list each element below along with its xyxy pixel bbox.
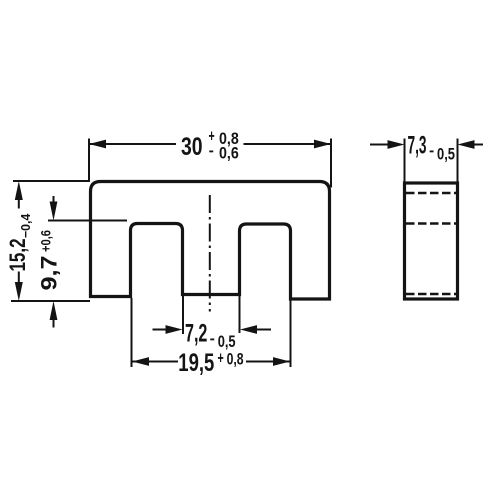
dim 30 arrowhead left	[89, 140, 106, 149]
dim 7.2 arrow right	[252, 329, 271, 331]
dim 30 extension line right	[330, 139, 332, 188]
svg-text:−: −	[209, 142, 214, 161]
dim 19.5 line left segment	[132, 361, 178, 363]
svg-text:7,2: 7,2	[185, 320, 207, 348]
svg-text:30: 30	[181, 133, 203, 161]
svg-text:15,2: 15,2	[5, 239, 30, 272]
svg-text:+0,6: +0,6	[38, 230, 54, 252]
svg-text:0,8: 0,8	[227, 350, 244, 369]
dim 19.5 arrowhead left	[132, 357, 149, 366]
svg-text:19,5: 19,5	[178, 349, 214, 377]
svg-text:−: −	[210, 330, 215, 349]
dim 7.2 extension line left	[182, 296, 184, 334]
dim 30 arrowhead right	[314, 140, 331, 149]
side view outline	[405, 183, 458, 299]
centerline (dash-dot)	[209, 195, 211, 312]
E-core front view outline	[91, 182, 330, 300]
dim 9.7 arrow top (pointing down)	[50, 202, 58, 221]
dim 7.3 extension line right	[457, 139, 459, 184]
dim 7.2 extension line right	[239, 296, 241, 333]
dim 19.5 extension line right	[290, 300, 292, 367]
dim 7.3 arrow right	[468, 144, 483, 146]
dim 9.7 reference line at slot top level	[48, 220, 127, 222]
dim 30 line right segment	[244, 143, 332, 145]
svg-text:9,7: 9,7	[37, 256, 62, 291]
side view hidden line bottom	[406, 293, 456, 296]
svg-text:0,5: 0,5	[437, 144, 455, 163]
svg-text:−0,4: −0,4	[18, 213, 33, 238]
dim 15.2 arrow bottom	[15, 282, 23, 301]
dim 9.7 arrow bottom (pointing up)	[50, 301, 58, 320]
dim 7.2 arrow left	[153, 329, 171, 331]
svg-text:7,3: 7,3	[408, 132, 427, 160]
dim 19.5 extension line left	[131, 298, 133, 367]
dim 19.5 line right segment	[246, 361, 290, 363]
svg-text:−: −	[429, 142, 434, 161]
dim 7.3 arrow left	[370, 144, 394, 146]
svg-text:+: +	[218, 349, 224, 368]
dim 7.3 extension line left	[404, 139, 406, 184]
dim 15.2 arrow top	[15, 181, 23, 200]
dim 30 extension line left	[88, 139, 90, 181]
svg-text:0,6: 0,6	[219, 143, 239, 162]
dim 30 line left segment	[89, 143, 176, 145]
dim 15.2 extension line bottom	[11, 300, 90, 302]
side view hidden line middle	[406, 222, 456, 225]
side view hidden line top	[406, 192, 456, 195]
dim 19.5 arrowhead right	[273, 357, 290, 366]
dim 15.2 extension line top	[13, 180, 90, 182]
